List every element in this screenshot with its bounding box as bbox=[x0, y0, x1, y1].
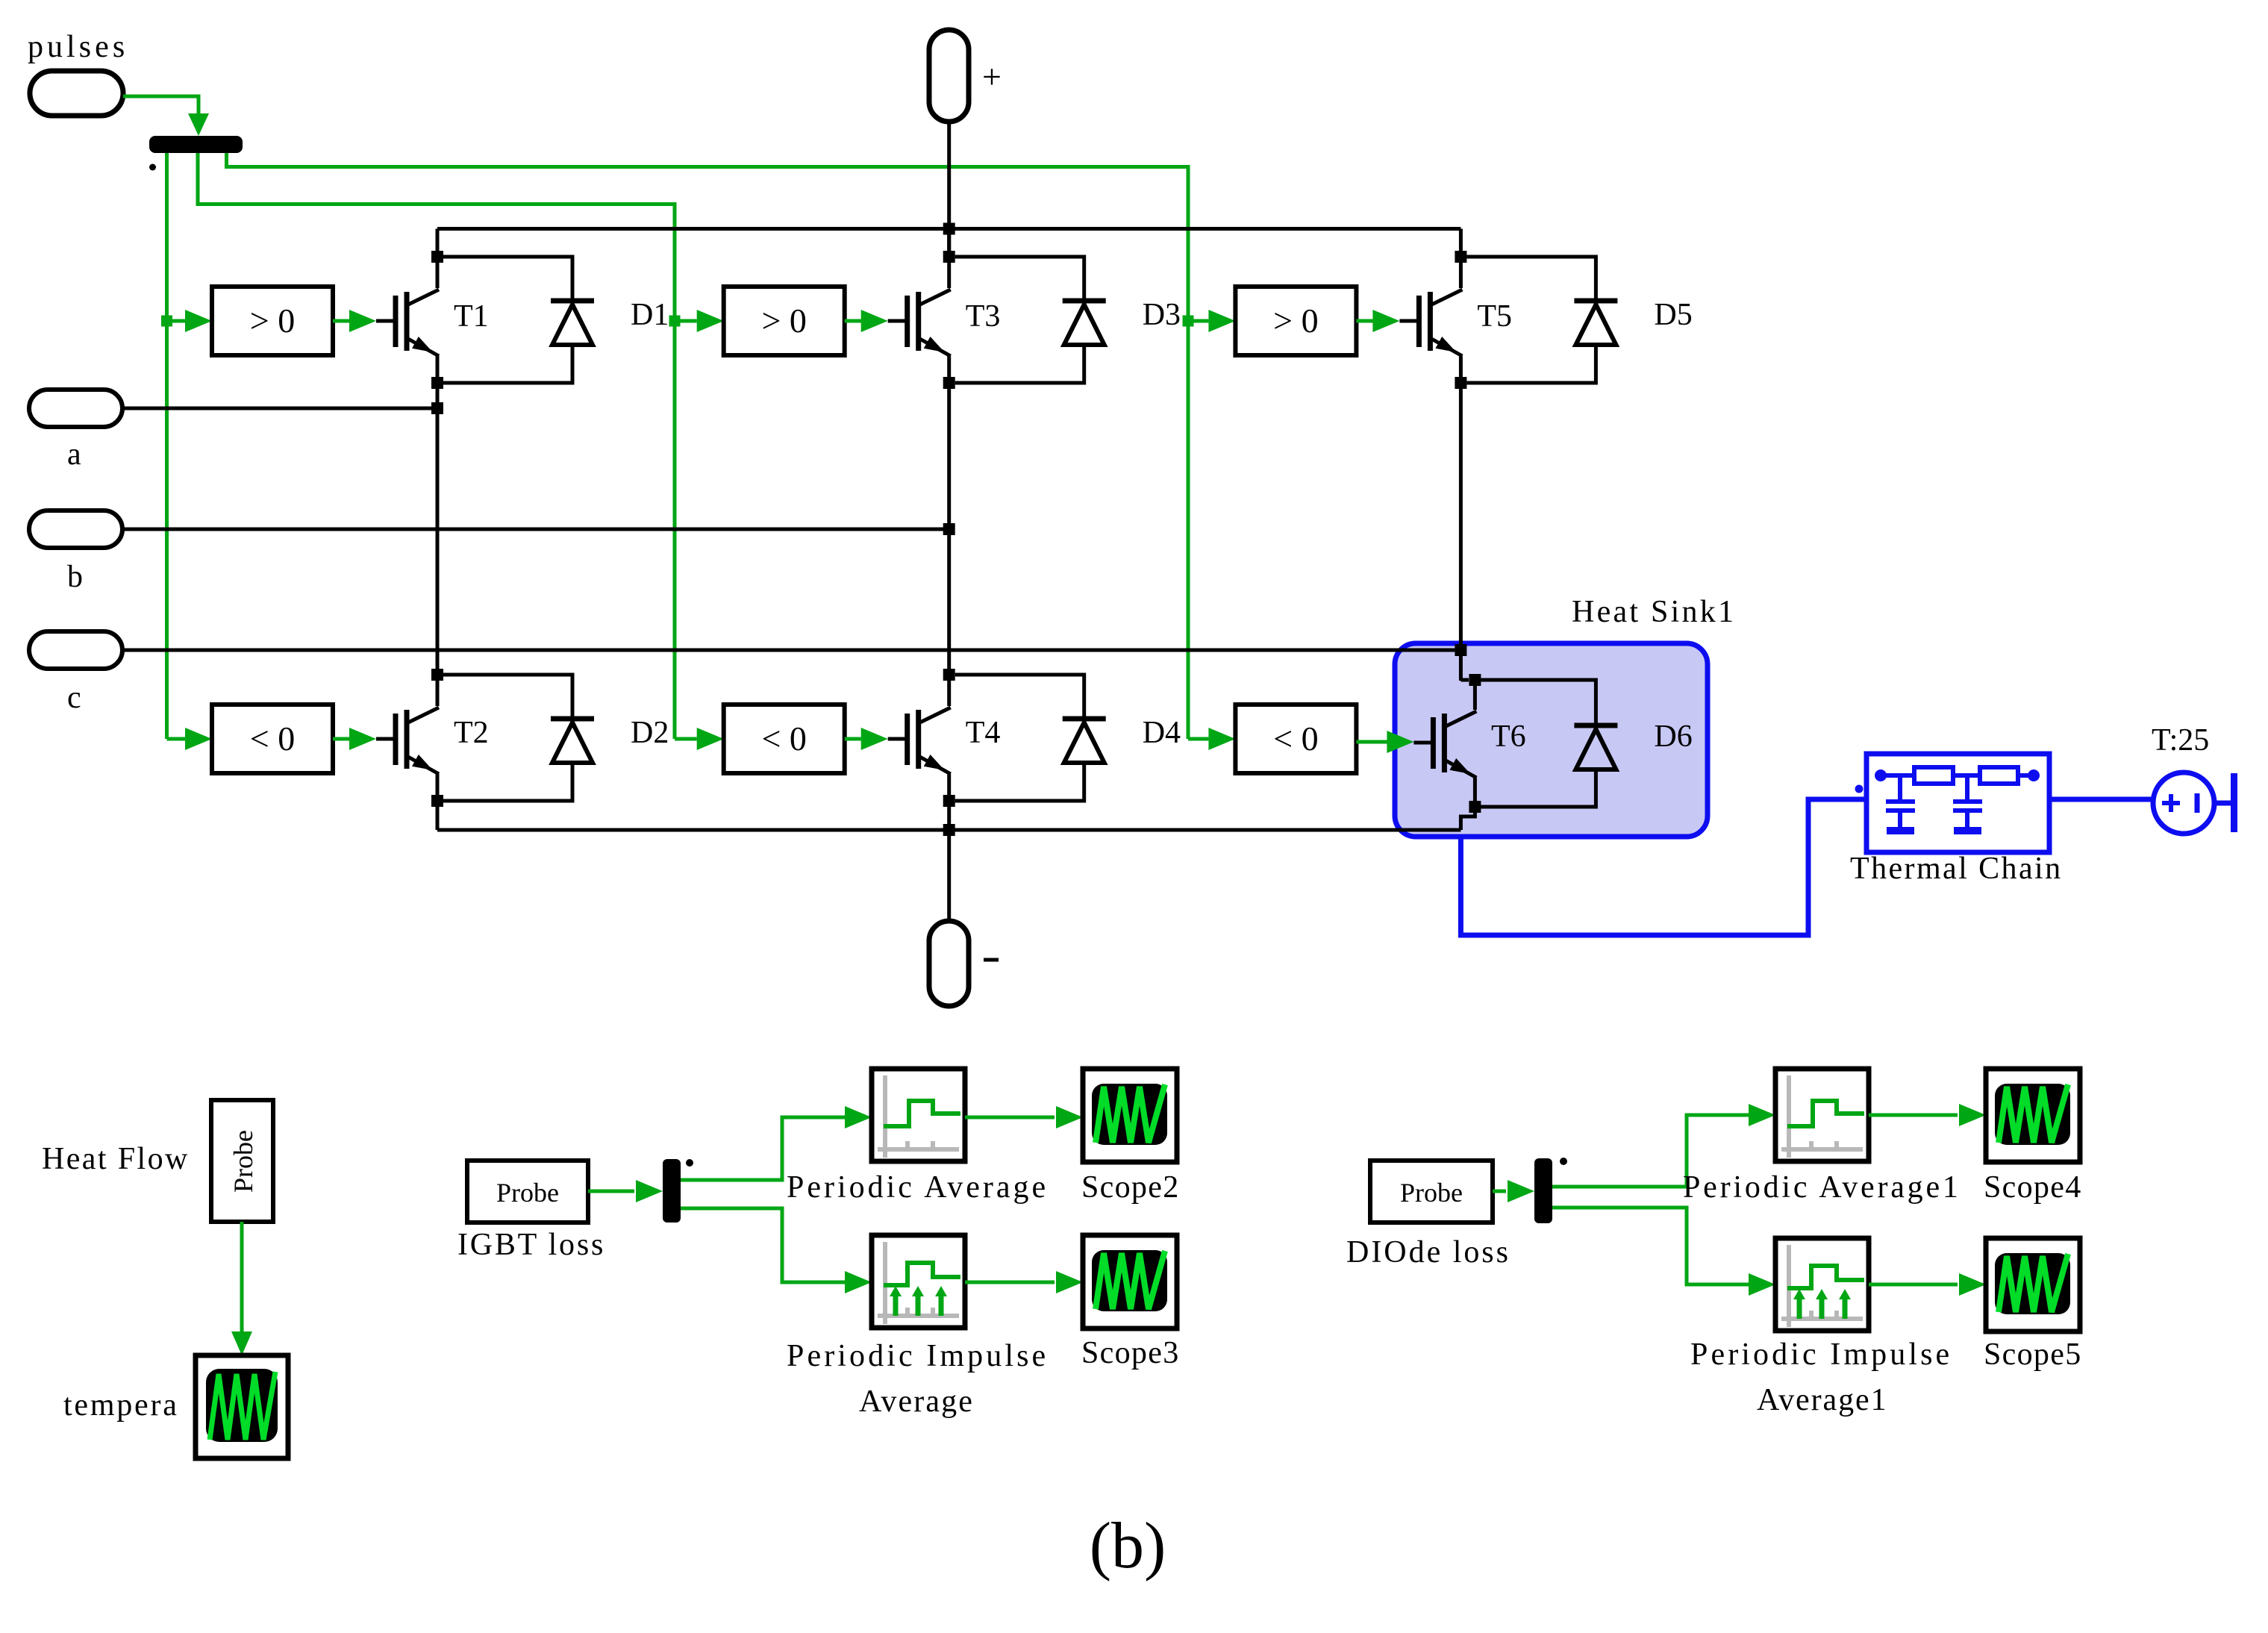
wire mux to Periodic Impulse Average bbox=[681, 1208, 872, 1293]
wire T:25 to thermal ground bbox=[2214, 801, 2231, 806]
svg-text:Periodic Average1: Periodic Average1 bbox=[1683, 1170, 1958, 1205]
node T5 collector bbox=[1455, 251, 1466, 263]
svg-text:T5: T5 bbox=[1477, 299, 1512, 334]
block Periodic Average1 bbox=[1683, 1069, 1958, 1205]
wire Periodic Impulse Average to Scope3 bbox=[965, 1271, 1083, 1293]
svg-text:D6: D6 bbox=[1654, 719, 1692, 754]
node T6 collector bbox=[1469, 674, 1481, 686]
wire comparator output to T6 gate bbox=[1356, 731, 1413, 753]
wire T2 collector to D2 bbox=[443, 675, 572, 716]
svg-text:Periodic Impulse: Periodic Impulse bbox=[1690, 1337, 1949, 1372]
wire Thermal Chain to T:25 source bbox=[2049, 797, 2154, 802]
probe Heat Flow bbox=[42, 1100, 273, 1222]
wire Probe to mux (DIOde loss) bbox=[1493, 1180, 1534, 1202]
wire rail to T3 collector bbox=[947, 229, 951, 257]
node T4 collector bbox=[943, 669, 955, 681]
svg-text:T1: T1 bbox=[454, 299, 489, 334]
svg-text:T2: T2 bbox=[454, 716, 489, 750]
svg-text:Probe: Probe bbox=[496, 1178, 559, 1208]
source T:25 (constant temperature) bbox=[2152, 723, 2214, 834]
heat sink Heat Sink1 bbox=[1395, 595, 1734, 837]
wire T5 collector to D5 bbox=[1466, 257, 1596, 299]
mux pulse demux bar bbox=[149, 136, 243, 153]
node T5 emitter bbox=[1455, 377, 1466, 389]
svg-text:IGBT loss: IGBT loss bbox=[457, 1228, 603, 1262]
junction gate bus leg2 upper bbox=[669, 316, 681, 327]
wire gate bus to comparator <0 leg1 bbox=[167, 728, 213, 750]
svg-text:Heat Flow: Heat Flow bbox=[42, 1142, 188, 1176]
svg-text:> 0: > 0 bbox=[250, 302, 295, 340]
node T3 collector bbox=[943, 251, 955, 263]
wire Periodic Average1 to Scope4 bbox=[1869, 1104, 1986, 1126]
svg-text:Scope2: Scope2 bbox=[1081, 1170, 1178, 1205]
block Periodic Average bbox=[787, 1069, 1046, 1205]
svg-text:Scope4: Scope4 bbox=[1984, 1170, 2081, 1205]
junction gate bus leg3 upper bbox=[1183, 316, 1194, 327]
node T3 emitter bbox=[943, 377, 955, 389]
block Periodic Impulse Average bbox=[787, 1235, 1046, 1419]
wire DC+ to rail bbox=[947, 122, 951, 251]
wire T4 collector to D4 bbox=[955, 675, 1084, 716]
probe DIOde loss bbox=[1346, 1161, 1508, 1270]
svg-text:tempera: tempera bbox=[63, 1388, 177, 1423]
wire T4 emitter to DC- rail bbox=[947, 801, 951, 830]
transistor T6 bbox=[1413, 678, 1525, 805]
wire gate bus leg3 bbox=[227, 153, 1189, 739]
port c bbox=[29, 631, 122, 715]
wire mux to Periodic Average bbox=[681, 1106, 872, 1180]
wire gate bus to comparator <0 leg3 bbox=[1188, 728, 1235, 750]
node T1 collector bbox=[431, 251, 443, 263]
svg-text:DIOde loss: DIOde loss bbox=[1346, 1235, 1508, 1270]
wire T3 collector to D3 bbox=[955, 257, 1084, 299]
wire gate bus to comparator <0 leg2 bbox=[675, 728, 724, 750]
wire comparator output to T5 gate bbox=[1356, 310, 1399, 332]
mux DIOde loss bbox=[1534, 1158, 1552, 1223]
wire Periodic Impulse Average1 to Scope5 bbox=[1869, 1273, 1986, 1296]
comparator < 0 (leg1 bottom) bbox=[212, 705, 333, 773]
caption (b) bbox=[1090, 1510, 1166, 1582]
diode D1 bbox=[551, 298, 669, 345]
junction phase b / leg2 bbox=[943, 523, 955, 535]
node T1 emitter bbox=[431, 377, 443, 389]
subsystem Thermal Chain bbox=[1850, 754, 2061, 886]
svg-text:Periodic Average: Periodic Average bbox=[787, 1170, 1046, 1205]
mux dot (DIOde loss) bbox=[1560, 1158, 1567, 1165]
terminal DC- bbox=[929, 921, 999, 1006]
diode D3 bbox=[1063, 298, 1181, 345]
wire DC+ rail bbox=[437, 227, 1461, 231]
wire T6 emitter to DC- rail bbox=[1461, 807, 1475, 830]
wire comparator output to T4 gate bbox=[845, 728, 888, 750]
wire D4 to T4 emitter bbox=[955, 763, 1084, 801]
scope Scope4 bbox=[1984, 1069, 2081, 1205]
scope Scope2 bbox=[1081, 1069, 1178, 1205]
wire heat sink to Thermal Chain (thermal) bbox=[1461, 799, 1866, 935]
svg-text:D4: D4 bbox=[1143, 716, 1181, 750]
junction phase c / leg3 bbox=[1455, 644, 1466, 656]
node T6 emitter bbox=[1469, 801, 1481, 813]
wire rail to T5 collector bbox=[1459, 229, 1463, 257]
diode D6 bbox=[1574, 719, 1692, 769]
wire leg2 midpoint bbox=[947, 383, 951, 675]
comparator < 0 (leg2 bottom) bbox=[724, 705, 845, 773]
wire Probe to mux (IGBT loss) bbox=[588, 1180, 663, 1202]
transistor T5 bbox=[1399, 257, 1512, 384]
node T2 emitter bbox=[431, 795, 443, 807]
svg-text:D3: D3 bbox=[1143, 298, 1181, 332]
transistor T3 bbox=[888, 257, 1001, 384]
transistor T4 bbox=[888, 675, 1001, 802]
svg-text:Average: Average bbox=[859, 1384, 972, 1419]
wire gate bus leg2 bbox=[198, 153, 675, 739]
svg-text:+: + bbox=[982, 57, 1002, 96]
svg-text:T:25: T:25 bbox=[2152, 723, 2209, 758]
wire rail to T1 collector bbox=[436, 229, 440, 257]
wire D1 to T1 emitter bbox=[443, 345, 572, 383]
mux IGBT loss bbox=[663, 1159, 681, 1223]
wire mux to Periodic Impulse Average1 bbox=[1552, 1208, 1775, 1296]
wire DC- rail bbox=[437, 828, 1461, 832]
junction phase a / leg1 bbox=[431, 402, 443, 414]
svg-text:Probe: Probe bbox=[228, 1130, 258, 1193]
dot thermal chain input bbox=[1855, 785, 1864, 793]
wire T1 collector to D1 bbox=[443, 257, 572, 299]
terminal DC+ bbox=[929, 30, 1002, 122]
wire T6 collector to D6 bbox=[1481, 680, 1596, 723]
wire leg3 to T6 collector bbox=[1461, 678, 1469, 682]
svg-text:> 0: > 0 bbox=[1273, 302, 1318, 340]
wire D3 to T3 emitter bbox=[955, 345, 1084, 383]
svg-text:Probe: Probe bbox=[1400, 1178, 1463, 1208]
svg-text:(b): (b) bbox=[1090, 1510, 1166, 1582]
wire Periodic Average to Scope2 bbox=[965, 1106, 1083, 1128]
svg-text:< 0: < 0 bbox=[761, 719, 806, 758]
svg-text:T4: T4 bbox=[966, 716, 1001, 750]
probe IGBT loss bbox=[457, 1161, 603, 1262]
wire comparator output to T1 gate bbox=[333, 310, 376, 332]
wire D6 to T6 emitter bbox=[1481, 769, 1596, 807]
svg-text:> 0: > 0 bbox=[761, 302, 806, 340]
node T4 emitter bbox=[943, 795, 955, 807]
block Periodic Impulse Average1 bbox=[1690, 1238, 1949, 1417]
svg-text:D5: D5 bbox=[1654, 298, 1692, 332]
wire D5 to T5 emitter bbox=[1466, 345, 1596, 383]
wire mux to Periodic Average1 bbox=[1552, 1104, 1775, 1187]
wire leg1 midpoint bbox=[436, 383, 440, 675]
mux dot (IGBT loss) bbox=[686, 1159, 693, 1167]
mux orientation dot bbox=[149, 164, 156, 171]
junction DC- rail / leg2 bbox=[943, 824, 955, 836]
svg-text:Scope5: Scope5 bbox=[1984, 1337, 2081, 1372]
svg-text:T6: T6 bbox=[1491, 719, 1526, 754]
wire junction to comparator >0 leg1 bbox=[167, 310, 213, 332]
svg-text:c: c bbox=[67, 681, 81, 715]
svg-text:< 0: < 0 bbox=[1273, 719, 1318, 758]
wire pulses to Mux bbox=[123, 96, 209, 136]
node T2 collector bbox=[431, 669, 443, 681]
scope tempera bbox=[63, 1355, 288, 1458]
comparator > 0 (leg2 top) bbox=[724, 287, 845, 355]
wire gate bus leg1 bbox=[165, 153, 169, 739]
svg-text:a: a bbox=[67, 437, 81, 472]
wire junction to comparator >0 leg3 bbox=[1188, 310, 1235, 332]
port a bbox=[29, 390, 122, 472]
wire rail to DC- terminal bbox=[947, 830, 951, 921]
junction DC+ rail / leg2 bbox=[943, 223, 955, 235]
wire D2 to T2 emitter bbox=[443, 763, 572, 801]
port pulses bbox=[28, 30, 125, 116]
wire phase a bbox=[122, 407, 437, 410]
svg-text:b: b bbox=[67, 560, 83, 594]
wire leg3 midpoint bbox=[1459, 383, 1463, 681]
svg-text:T3: T3 bbox=[966, 299, 1001, 334]
svg-text:D2: D2 bbox=[631, 716, 669, 750]
wire T2 emitter to DC- rail bbox=[436, 801, 440, 830]
transistor T2 bbox=[376, 675, 489, 802]
svg-text:< 0: < 0 bbox=[250, 719, 295, 758]
wire junction to comparator >0 leg2 bbox=[675, 310, 724, 332]
junction gate bus leg1 upper bbox=[161, 316, 172, 327]
scope Scope5 bbox=[1984, 1238, 2081, 1372]
svg-text:Periodic Impulse: Periodic Impulse bbox=[787, 1339, 1046, 1373]
wire comparator output to T2 gate bbox=[333, 728, 376, 750]
comparator > 0 (leg1 top) bbox=[212, 287, 333, 355]
svg-text:Scope3: Scope3 bbox=[1081, 1336, 1178, 1370]
comparator > 0 (leg3 top) bbox=[1235, 287, 1356, 355]
transistor T1 bbox=[376, 257, 489, 384]
comparator < 0 (leg3 bottom) bbox=[1235, 705, 1356, 773]
scope Scope3 bbox=[1081, 1235, 1178, 1370]
diode D4 bbox=[1063, 716, 1181, 763]
diode D5 bbox=[1574, 298, 1692, 345]
wire comparator output to T3 gate bbox=[845, 310, 888, 332]
port b bbox=[29, 510, 122, 594]
wire Probe to tempera scope bbox=[231, 1222, 252, 1355]
wire phase b bbox=[122, 528, 949, 531]
svg-text:Thermal Chain: Thermal Chain bbox=[1850, 852, 2061, 886]
wire phase c bbox=[122, 649, 1461, 652]
thermal ground bar bbox=[2231, 773, 2237, 832]
svg-text:D1: D1 bbox=[631, 298, 669, 332]
diode D2 bbox=[551, 716, 669, 763]
